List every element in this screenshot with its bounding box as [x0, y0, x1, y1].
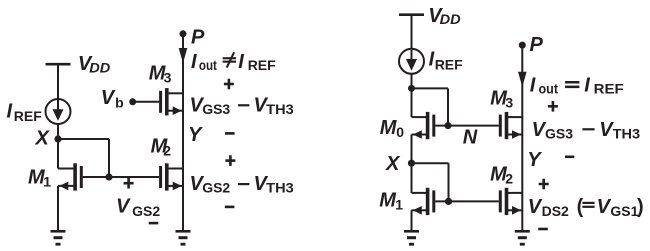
svg-text:X: X: [385, 153, 401, 175]
svg-text:Y: Y: [527, 149, 542, 171]
svg-text:P: P: [530, 34, 544, 56]
svg-text:IREF: IREF: [7, 100, 43, 124]
svg-text:N: N: [463, 127, 478, 149]
svg-text:VDD: VDD: [78, 53, 110, 75]
svg-text:M1: M1: [28, 167, 51, 190]
svg-text:Y: Y: [188, 124, 203, 146]
svg-text:P: P: [191, 27, 205, 49]
svg-text:M2: M2: [151, 135, 172, 158]
svg-text:M0: M0: [380, 117, 405, 140]
svg-text:M2: M2: [490, 164, 513, 187]
svg-text:M1: M1: [379, 189, 403, 212]
svg-text:M3: M3: [149, 63, 172, 86]
svg-text:IREF: IREF: [429, 49, 464, 73]
svg-text:VGS2: VGS2: [116, 196, 160, 220]
svg-text:M3: M3: [490, 87, 513, 110]
svg-text:Vb: Vb: [101, 87, 124, 111]
svg-text:X: X: [35, 127, 51, 149]
svg-text:VDD: VDD: [428, 5, 460, 27]
